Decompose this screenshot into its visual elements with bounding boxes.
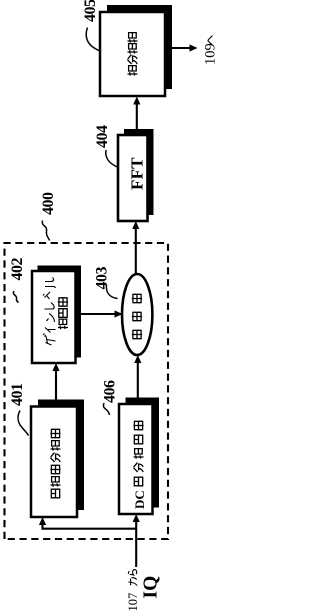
wire input IQ from 107 (133, 514, 140, 567)
text 乗算器 in 403 (132, 294, 142, 339)
block 404 FFT (118, 129, 154, 221)
text DC成分除去器 in 406 (132, 421, 147, 509)
text FFT in 404 (128, 157, 147, 190)
label IQ (141, 576, 162, 599)
label 403 (94, 267, 111, 290)
svg-text:404: 404 (94, 125, 111, 148)
svg-text:DC: DC (132, 490, 147, 509)
block 401 frequency analyzer (31, 400, 84, 518)
text 周波数分析器 in 401 (50, 429, 60, 498)
leader tick for 402 (13, 291, 18, 303)
wire 406 to 403 (134, 355, 141, 404)
svg-text:402: 402 (9, 258, 26, 281)
leader tick for 401 (18, 411, 28, 436)
wire 404 to 405 (133, 97, 140, 130)
wire 402 down to 403 (81, 310, 123, 317)
wire 401 to 402 (52, 363, 59, 400)
svg-text:403: 403 (94, 267, 111, 290)
label 107 kara (126, 570, 140, 611)
wire branch up to 401 (39, 517, 136, 529)
svg-text:IQ: IQ (141, 576, 162, 599)
svg-text:109: 109 (203, 43, 216, 65)
svg-text:400: 400 (40, 192, 57, 215)
wire 403 to 404 (132, 221, 139, 274)
leader tick for 405 (86, 28, 100, 52)
svg-text:405: 405 (82, 0, 99, 22)
svg-text:401: 401 (9, 383, 26, 406)
svg-text:FFT: FFT (128, 157, 147, 190)
block 405 post-processing (100, 5, 172, 96)
leader tick for 404 (106, 150, 119, 168)
block 402 gain level determiner (32, 266, 81, 364)
text 後処理部 in 405 (127, 33, 137, 76)
block 406 DC component remover (119, 398, 159, 515)
label 109 he (203, 36, 219, 66)
multiplier ellipse 403 (122, 274, 152, 355)
wire 405 output to 109 (172, 44, 198, 51)
dashed box 400 (5, 243, 169, 539)
text ゲインレベル line1 in 402 (43, 278, 56, 346)
label 401 (9, 383, 26, 406)
label 406 (102, 380, 119, 403)
leader tick for 406 (103, 403, 109, 415)
svg-text:107: 107 (126, 593, 140, 611)
label 404 (94, 125, 111, 148)
label 402 (9, 258, 26, 281)
label 400 (40, 192, 57, 215)
leader tick for 403 (106, 285, 117, 299)
text 決定器 line2 in 402 (58, 297, 68, 329)
leader tick for 400 (42, 221, 49, 241)
svg-text:406: 406 (102, 380, 119, 403)
label 405 (82, 0, 99, 22)
